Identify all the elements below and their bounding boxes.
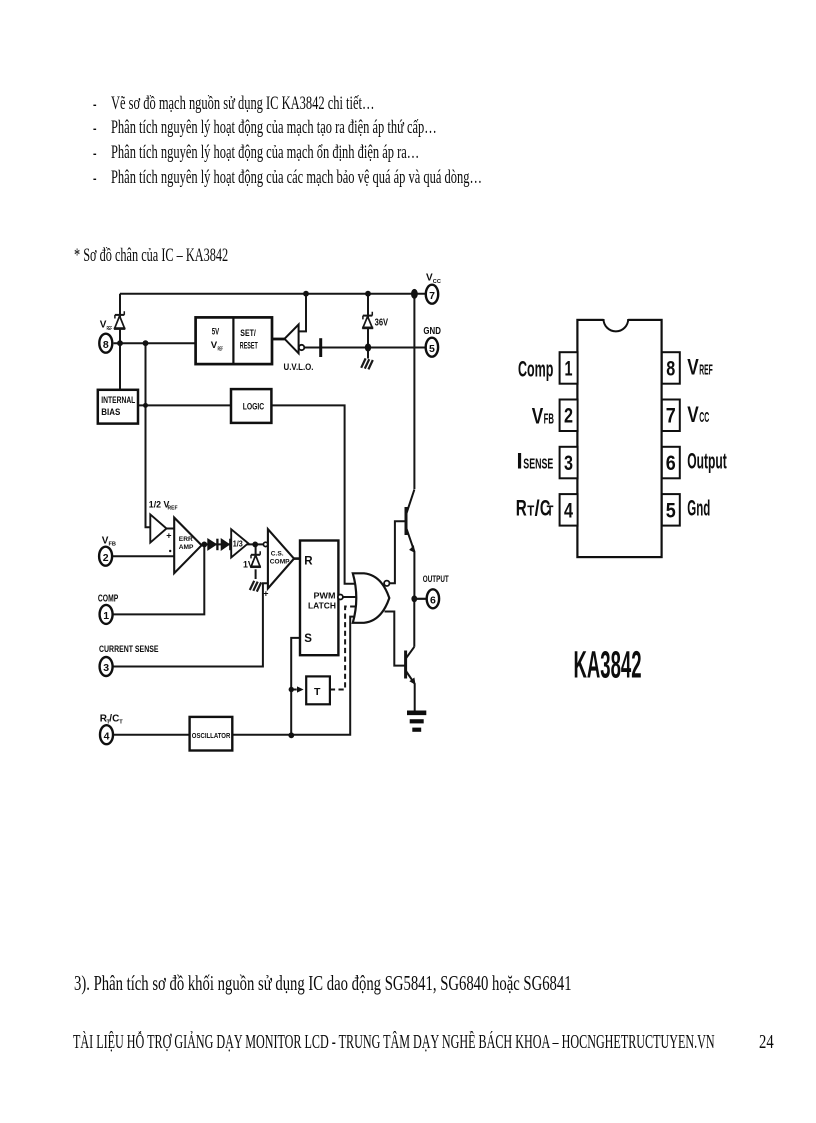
wire: 1V zener to ground [255, 569, 257, 579]
diode/zener at pin 8 [114, 311, 125, 328]
svg-text:1V: 1V [243, 560, 254, 570]
box: INTERNAL BIAS [98, 390, 138, 424]
svg-text:3: 3 [103, 662, 109, 674]
label Isense [517, 449, 554, 474]
svg-text:T: T [119, 720, 123, 726]
svg-text:3: 3 [564, 452, 573, 475]
heading [74, 246, 228, 265]
wire: output stub [414, 598, 426, 600]
bullet list [93, 95, 97, 114]
wire: pin 1 COMP to err amp output node [112, 544, 204, 614]
wire: gate out to Q2 base [385, 612, 406, 666]
svg-text:RESET: RESET [240, 341, 258, 352]
label Vfb [532, 403, 554, 428]
svg-text:FB: FB [109, 542, 116, 548]
zener D 36V [362, 312, 373, 328]
wire: 36V zener vertical [367, 294, 369, 348]
buffer 1/2 Vref [149, 500, 178, 543]
svg-text:4: 4 [104, 730, 110, 742]
pin 1 circle [98, 594, 119, 624]
wire: LOGIC output to NOR gate top input [271, 405, 359, 583]
wire: Vcc top rail [120, 293, 426, 295]
svg-text:U.V.L.O.: U.V.L.O. [284, 362, 314, 373]
svg-text:SET/: SET/ [240, 328, 256, 339]
svg-text:REF: REF [699, 362, 713, 379]
svg-text:REF: REF [218, 346, 224, 352]
wire: C.S. comp out to R [294, 557, 300, 560]
svg-text:BIAS: BIAS [101, 407, 120, 417]
wire: pin 2 Vfb to err amp [112, 555, 174, 557]
wire: latch out bubble to gate [343, 596, 360, 598]
NOR gate [353, 573, 390, 623]
svg-text:OSCILLATOR: OSCILLATOR [192, 731, 231, 740]
wire: err amp out through diodes to C.S. comp [202, 543, 264, 545]
svg-text:1: 1 [103, 610, 109, 622]
wire: Q1 collector vertical from rail [413, 294, 415, 489]
pin 6 circle [423, 574, 449, 609]
svg-text:36V: 36V [375, 316, 389, 328]
junction dots top area [117, 289, 418, 408]
svg-text:I: I [517, 449, 523, 474]
ground hatch under 36V zener [361, 358, 373, 369]
wire: rail left drop to pin 8 node [119, 294, 121, 344]
pin 7 circle [426, 273, 441, 304]
node: err amp output [201, 542, 207, 548]
box: OSCILLATOR [190, 717, 233, 751]
label Vref [687, 355, 713, 380]
UVLO comparator [272, 325, 314, 373]
svg-text:2: 2 [103, 552, 109, 564]
svg-text:Gnd: Gnd [687, 496, 710, 521]
svg-text:COMP: COMP [270, 559, 290, 566]
bottom paragraph [74, 974, 572, 995]
wire: pin 8 stub to 5V box [114, 342, 196, 344]
node after 1/3 [252, 542, 258, 548]
wire: gnd rail from UVLO bubble to pin 5 [304, 347, 425, 349]
svg-text:V: V [687, 355, 699, 380]
svg-text:PWM: PWM [314, 591, 336, 601]
svg-text:AMP: AMP [179, 544, 194, 551]
pin 3 box [560, 447, 578, 479]
pin 4 box [560, 494, 578, 525]
zener 1V [243, 551, 261, 569]
svg-text:R: R [516, 496, 527, 521]
wire: T output dashed to gate [330, 607, 358, 690]
transistor Q2 [406, 599, 416, 712]
ground hatch under 1V zener [250, 581, 261, 592]
svg-text:T: T [314, 686, 321, 698]
svg-text:/C: /C [109, 713, 119, 724]
junction dots lower [288, 687, 294, 738]
pin 5 circle [423, 325, 441, 357]
wire: gate bubble to Q1 base [390, 521, 407, 583]
wire: node to INTERNAL BIAS [119, 343, 121, 390]
svg-text:V: V [532, 403, 544, 428]
svg-text:V: V [687, 402, 699, 427]
svg-text:CC: CC [699, 409, 709, 426]
svg-text:T: T [547, 503, 554, 520]
svg-text:LOGIC: LOGIC [243, 401, 265, 411]
svg-text:/: / [535, 496, 540, 521]
svg-text:+: + [166, 531, 171, 541]
svg-text:S: S [304, 633, 312, 645]
pin 4 circle [100, 713, 124, 744]
svg-text:1/3: 1/3 [233, 540, 243, 549]
box: 5V Vref / SET RESET [196, 317, 272, 364]
notch [604, 317, 629, 331]
svg-text:KA3842: KA3842 [574, 645, 642, 687]
IC package KA3842 body [577, 317, 661, 557]
wire: buffer out to err amp + [167, 528, 175, 530]
svg-text:Comp: Comp [518, 356, 553, 381]
wire: pin 3 current sense to C.S. comp + input [112, 583, 268, 666]
wire: node down to 1/2 Vref buffer [146, 343, 151, 527]
svg-text:6: 6 [666, 452, 676, 475]
svg-text:C.S.: C.S. [271, 550, 284, 557]
svg-text:REF: REF [107, 326, 113, 332]
svg-text:7: 7 [429, 290, 435, 302]
gain block 1/3 [231, 529, 248, 557]
svg-text:REF: REF [168, 505, 178, 511]
svg-text:8: 8 [666, 357, 675, 380]
wire: internal bias to LOGIC [138, 404, 231, 406]
svg-text:ERR: ERR [179, 536, 193, 543]
wire: oscillator out to gate bottom input [232, 617, 358, 735]
pin 2 box [560, 400, 578, 432]
pin 3 circle [99, 644, 159, 676]
wire: pin 4 to oscillator [114, 734, 190, 736]
svg-text:FB: FB [544, 410, 554, 427]
box: T flip-flop [297, 676, 330, 704]
svg-text:CC: CC [433, 279, 441, 285]
svg-text:OUTPUT: OUTPUT [423, 574, 449, 585]
wire: zener gnd stub [367, 348, 369, 359]
box: PWM LATCH [300, 541, 343, 656]
svg-text:5: 5 [666, 499, 676, 522]
svg-text:5V: 5V [212, 326, 220, 337]
svg-text:T: T [527, 503, 534, 520]
label Vcc [687, 402, 709, 427]
diode D1 [208, 539, 218, 551]
footer [73, 1033, 715, 1053]
svg-text:6: 6 [430, 594, 436, 606]
diode D2 [221, 539, 230, 551]
svg-text:2: 2 [564, 405, 573, 428]
comparator C.S. COMP [263, 529, 294, 598]
svg-text:LATCH: LATCH [308, 601, 336, 611]
box: LOGIC [231, 389, 271, 423]
svg-text:1: 1 [565, 357, 573, 380]
pin 7 box [662, 400, 680, 432]
pin 6 box [662, 447, 680, 479]
svg-text:7: 7 [666, 405, 676, 428]
pin 8 box [662, 352, 680, 384]
pin 8 circle [99, 320, 112, 353]
input bubble of C.S. comp [263, 542, 267, 546]
svg-text:8: 8 [103, 339, 109, 351]
ground below Q2 [407, 713, 426, 730]
wire: 1V zener drop [255, 544, 257, 554]
svg-text:SENSE: SENSE [523, 456, 553, 473]
svg-text:INTERNAL: INTERNAL [101, 395, 135, 405]
transistor Q1 [406, 489, 415, 598]
wire: UVLO input from rail [299, 294, 306, 332]
wire: T input stub [291, 689, 297, 691]
pin 1 box [560, 352, 578, 384]
pin 5 box [662, 494, 680, 525]
wire: S input from oscillator node [291, 638, 300, 735]
svg-text:1/2 V: 1/2 V [149, 500, 170, 510]
svg-text:COMP: COMP [98, 594, 119, 605]
svg-text:CURRENT SENSE: CURRENT SENSE [99, 644, 159, 655]
capacitor bar on gnd rail [319, 338, 322, 357]
svg-text:Output: Output [687, 449, 727, 474]
svg-text:5: 5 [429, 343, 435, 355]
label Rt/Ct [516, 496, 554, 521]
svg-text:+: + [263, 589, 268, 599]
svg-text:GND: GND [423, 325, 441, 337]
op-amp ERR AMP [166, 518, 201, 574]
pin 2 circle [99, 535, 116, 565]
svg-text:4: 4 [564, 499, 573, 522]
svg-text:R: R [304, 556, 313, 568]
node: output pin 6 [411, 595, 417, 602]
